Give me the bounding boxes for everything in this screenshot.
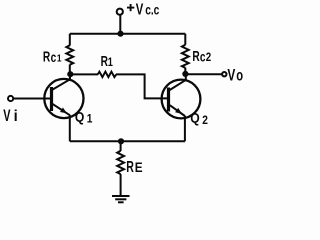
svg-text:V: V <box>136 1 144 18</box>
svg-text:V: V <box>227 66 235 85</box>
terminal +Vcc <box>117 9 123 15</box>
node C junction <box>118 138 124 144</box>
svg-text:1: 1 <box>57 53 62 65</box>
wire right drop to RC2 <box>184 34 186 45</box>
label Q2 <box>190 110 208 127</box>
svg-text:i: i <box>14 108 18 125</box>
wire Q2 collector to node B <box>185 74 187 80</box>
wire R1 to Q2 base <box>116 74 169 98</box>
svg-text:R: R <box>101 53 108 69</box>
wire node A to R1 <box>70 73 98 75</box>
svg-text:1: 1 <box>108 57 113 69</box>
svg-text:c.c: c.c <box>145 2 159 18</box>
resistor RE <box>117 151 124 174</box>
svg-text:Q: Q <box>190 110 199 126</box>
node Vcc junction <box>117 31 123 37</box>
svg-text:c: c <box>51 49 57 65</box>
wire node C to RE <box>120 141 122 151</box>
wire RE to ground <box>120 174 122 196</box>
wire RC1 to node A <box>69 65 71 75</box>
label Q1 <box>75 109 93 126</box>
svg-text:2: 2 <box>202 114 208 127</box>
wire bottom rail <box>70 140 185 142</box>
svg-text:1: 1 <box>87 113 93 126</box>
node B junction <box>182 71 188 77</box>
label Vi <box>3 107 17 126</box>
label +Vcc <box>127 1 160 18</box>
wire Q1 emitter drop <box>69 115 71 141</box>
resistor R1 <box>98 72 116 77</box>
terminal Vi <box>8 96 13 101</box>
terminal Vo <box>222 72 226 76</box>
svg-text:o: o <box>236 65 243 84</box>
label RC1 <box>43 49 62 65</box>
resistor RC2 <box>182 45 189 68</box>
svg-text:V: V <box>3 107 11 126</box>
svg-text:R: R <box>192 48 199 64</box>
label Vo <box>227 65 243 85</box>
svg-text:E: E <box>135 159 143 175</box>
transistor Q1 <box>44 79 83 118</box>
svg-text:R: R <box>43 49 50 65</box>
resistor RC1 <box>66 45 73 64</box>
svg-text:2: 2 <box>206 52 211 65</box>
svg-text:c: c <box>200 49 206 65</box>
wire Vcc stem <box>119 15 121 34</box>
ground <box>112 196 130 202</box>
wire Vi to Q1 base <box>13 98 51 100</box>
label R1 <box>101 53 113 69</box>
wire top rail Vcc <box>70 33 186 35</box>
wire RC2 to node B <box>184 68 186 74</box>
transistor Q2 <box>162 80 201 119</box>
svg-text:R: R <box>126 158 134 176</box>
wire Q2 emitter drop <box>184 116 186 142</box>
label RE <box>126 158 143 176</box>
wire node B to Vo <box>185 73 222 75</box>
svg-text:Q: Q <box>75 109 84 125</box>
wire Q1 collector to node A <box>69 74 71 79</box>
label RC2 <box>192 48 211 64</box>
node A junction <box>67 71 73 77</box>
wire left drop to RC1 <box>69 34 71 46</box>
